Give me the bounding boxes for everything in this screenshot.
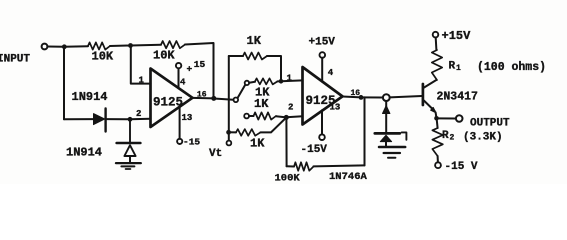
wire R2 bottom stem xyxy=(437,156,439,162)
svg-text:R: R xyxy=(442,130,449,142)
svg-text:+15V: +15V xyxy=(442,29,472,43)
wire input to junction xyxy=(48,46,64,48)
svg-text:(100 ohms): (100 ohms) xyxy=(477,61,546,74)
wire to op-amp2 pin 1 xyxy=(281,79,303,82)
switch pole contact xyxy=(234,98,239,103)
wire junction to R2 xyxy=(131,44,162,47)
svg-text:+: + xyxy=(187,63,193,74)
wire R1 to junction xyxy=(110,45,131,48)
op-amp U2 +15V stem pin 4 xyxy=(321,58,323,82)
node +15V terminal right xyxy=(433,32,439,38)
svg-text:1N746A: 1N746A xyxy=(329,171,368,183)
node emitter junction xyxy=(434,116,439,121)
node output junction U1 xyxy=(211,96,216,101)
wire emitter down to R2 xyxy=(437,118,438,128)
op-amp U1 +15 supply stem pin 4 xyxy=(178,69,180,89)
svg-text:16: 16 xyxy=(351,89,361,98)
node row D junction xyxy=(226,130,231,135)
wire contact to 1K row B xyxy=(249,81,255,84)
wire to diode D1 xyxy=(64,118,94,120)
transistor Q1 collector xyxy=(424,80,436,88)
zener D3 1N746A stem with arrowhead xyxy=(385,101,387,107)
node OUTPUT terminal xyxy=(456,115,463,122)
wire contact to 1K row C xyxy=(249,115,254,117)
svg-text:2: 2 xyxy=(136,109,141,119)
svg-text:1: 1 xyxy=(456,64,461,73)
zener D3 triangle xyxy=(380,135,391,141)
svg-text:10K: 10K xyxy=(92,50,114,64)
diode D2 1N914 clamp to ground xyxy=(129,119,131,141)
wire input junction down xyxy=(63,47,65,119)
wire feedback vertical right xyxy=(364,97,366,165)
svg-text:-15V: -15V xyxy=(301,144,328,156)
node output junction U2 xyxy=(359,95,364,100)
svg-text:15: 15 xyxy=(194,59,206,70)
svg-text:1: 1 xyxy=(287,74,293,84)
wire op-amp2 output xyxy=(343,96,362,99)
wire row D left xyxy=(229,131,236,133)
svg-text:-15: -15 xyxy=(183,137,200,148)
wire left vertical of gain network xyxy=(228,56,230,140)
svg-text:+15V: +15V xyxy=(309,37,336,49)
resistor 1K row B xyxy=(255,78,278,84)
node -15V terminal right xyxy=(435,162,441,168)
resistor R1 vertical xyxy=(432,50,442,80)
wire to 100K xyxy=(287,165,294,167)
zener D3 cathode bar xyxy=(375,132,400,135)
ground under zener xyxy=(379,146,405,149)
wire row D diagonal to pin2 junction xyxy=(261,118,287,133)
diode D1 1N914 series xyxy=(94,114,105,125)
node op-amp2 pin2 junction xyxy=(284,115,289,120)
wire D1 to pin2 node xyxy=(107,118,130,120)
wire 100K to right vertical xyxy=(314,165,365,166)
op-amp U1 -15 supply stem pin 13 xyxy=(179,108,181,139)
wire to op-amp pin 2 xyxy=(130,118,151,121)
transistor Q1 emitter with arrow xyxy=(424,101,435,111)
wire emitter to OUTPUT terminal xyxy=(437,117,456,119)
svg-text:-15 V: -15 V xyxy=(445,161,478,173)
svg-text:1N914: 1N914 xyxy=(72,90,108,104)
svg-text:13: 13 xyxy=(330,102,341,112)
svg-text:4: 4 xyxy=(328,68,334,78)
svg-text:1N914: 1N914 xyxy=(66,145,102,159)
wire row A left xyxy=(229,55,243,57)
op-amp U2 -15V stem pin 13 xyxy=(321,110,323,134)
svg-text:1K: 1K xyxy=(250,137,265,151)
svg-text:100K: 100K xyxy=(275,173,301,185)
op-amp U1 9125 xyxy=(151,69,193,128)
svg-text:2N3417: 2N3417 xyxy=(437,91,479,104)
svg-text:9125: 9125 xyxy=(153,96,183,110)
svg-text:2: 2 xyxy=(450,134,455,143)
switch contact row C xyxy=(244,114,249,119)
node input junction xyxy=(62,44,67,49)
svg-text:10K: 10K xyxy=(153,49,175,63)
wire 100K left vertical xyxy=(285,117,287,166)
svg-text:1K: 1K xyxy=(254,97,269,111)
node junction top xyxy=(128,43,133,48)
svg-text:R: R xyxy=(449,61,456,73)
svg-text:INPUT: INPUT xyxy=(0,54,30,66)
wire row C to pin2 junction xyxy=(276,116,286,117)
node Vt terminal xyxy=(227,141,232,146)
node pin2 junction xyxy=(128,117,133,122)
wire to output terminal circle xyxy=(361,96,383,98)
svg-text:1: 1 xyxy=(139,76,145,86)
wire terminal to transistor base xyxy=(390,96,422,97)
op-amp U2 9125 xyxy=(303,67,343,125)
wire output to switch pole xyxy=(214,99,234,100)
svg-text:1K: 1K xyxy=(247,34,262,48)
svg-text:OUTPUT: OUTPUT xyxy=(470,117,510,129)
switch wiper arm xyxy=(238,85,245,98)
wire op-amp1 output xyxy=(193,97,214,100)
ground under D2 xyxy=(116,162,141,164)
resistor 1K row A xyxy=(243,53,267,60)
wire top to R1 xyxy=(64,45,88,48)
wire row A right and down xyxy=(267,56,281,81)
resistor 10K first xyxy=(88,42,110,49)
stray hook mark xyxy=(402,132,407,139)
wire junction down to op-amp1 pin 1 xyxy=(131,46,151,84)
transistor Q1 2N3417 base bar xyxy=(422,84,425,105)
node row B junction xyxy=(279,79,284,84)
svg-text:13: 13 xyxy=(182,113,193,123)
resistor R2 vertical xyxy=(432,128,442,156)
svg-text:16: 16 xyxy=(197,91,207,100)
resistor 1K row D xyxy=(236,129,261,136)
node INPUT terminal xyxy=(42,44,48,50)
svg-text:2: 2 xyxy=(288,103,293,113)
wire R2 to corner and down to output node xyxy=(185,43,214,98)
svg-text:4: 4 xyxy=(180,78,186,88)
wire row B to junction xyxy=(278,80,282,82)
wire R1 top stem xyxy=(435,38,438,51)
resistor 100K xyxy=(294,162,314,170)
resistor 1K row C xyxy=(254,112,277,119)
svg-text:Vt: Vt xyxy=(209,148,222,160)
node mid output terminal xyxy=(383,94,390,101)
svg-text:(3.3K): (3.3K) xyxy=(463,131,503,143)
wire to op-amp2 pin 2 xyxy=(286,116,302,117)
resistor 10K second xyxy=(161,41,185,48)
switch contact row B xyxy=(245,81,249,85)
